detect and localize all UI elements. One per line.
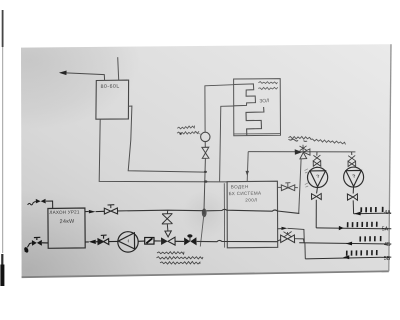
svg-text:3ОЛ: 3ОЛ [259, 98, 269, 104]
wire continuation below supply [200, 217, 203, 247]
valve V9 below pump P1 [312, 188, 322, 200]
wire return main to BH tank [197, 240, 278, 241]
pump P1 [308, 167, 328, 187]
wire pump2 top [351, 152, 353, 155]
pump P4 (small circ pump) [201, 132, 210, 141]
svg-text:200Л: 200Л [245, 198, 257, 203]
wire boiler return stub [85, 241, 89, 243]
radiator line 3 [299, 243, 391, 244]
filter slash [146, 238, 152, 243]
radiator line 1 [354, 212, 392, 215]
wire pump1 down [315, 200, 317, 228]
blob bottom-left [23, 246, 29, 253]
wire pump1 top [316, 152, 318, 156]
wire pump2 down [352, 200, 354, 213]
svg-text:БХ СИСТЕМА: БХ СИСТЕМА [229, 191, 263, 197]
valve V10 with X handle [348, 155, 356, 166]
wire tank right to riser [128, 106, 205, 172]
heat exchanger box HX1 [234, 79, 281, 136]
wire valve down to supply junction [204, 158, 206, 214]
pump P3 impeller triangle [118, 233, 134, 249]
note scribble above pipe C part 2 [311, 139, 346, 144]
wire HX lower to line B [220, 106, 234, 181]
pump P2 impeller triangle [346, 170, 362, 186]
note scribble dark spots [289, 139, 308, 141]
svg-text:24кW: 24кW [59, 219, 75, 226]
tiny marks near riser [305, 169, 309, 187]
note callout to pump [195, 131, 202, 134]
pen dot on paper [25, 250, 27, 252]
wire valve to pump [109, 240, 118, 242]
valve V1 top-left [36, 199, 41, 204]
arrowhead right line2 [339, 226, 344, 230]
paper sheet [21, 44, 391, 277]
radiator ticks line1 [361, 207, 383, 213]
mixing valve V15 with X handle [278, 232, 295, 243]
tank T2 (voden BH sistema 200L) [227, 181, 278, 248]
arrowhead right (supply out) [89, 210, 96, 214]
radiator ticks line2 [348, 222, 377, 228]
HX label scribble line 2 [258, 87, 278, 89]
radiator ticks line4 [347, 250, 377, 256]
wire pump to valve [204, 142, 206, 148]
wire to valve [96, 241, 98, 243]
wire blob to valve [27, 243, 32, 248]
branch from supply junction [166, 210, 168, 213]
valve V8 with X handle [313, 155, 321, 167]
arrowhead left line3 [346, 242, 352, 246]
pump P3 mark [127, 240, 130, 243]
svg-text:ЛАХОН УР21: ЛАХОН УР21 [49, 209, 80, 215]
valve V7 on BH tank right [278, 183, 298, 191]
valve V4 return with T handle [98, 235, 109, 244]
svg-text:4А: 4А [384, 210, 391, 216]
valve V5 (hourglass) below small pump [202, 147, 209, 158]
arrowhead down on feed [246, 171, 250, 176]
wire tank top-left with arrow [61, 73, 105, 81]
svg-text:5А: 5А [382, 227, 389, 233]
wire line2-left from tank [278, 228, 282, 230]
junction node line A [204, 171, 207, 173]
radiator line 4 [305, 257, 391, 259]
arrowhead right on line2-left [281, 227, 287, 230]
valve V13 hourglass with X [162, 214, 173, 224]
radiator ticks line3 [360, 236, 381, 242]
wire valve to boiler left [42, 242, 48, 244]
paper right edge shadow [389, 44, 391, 271]
3-way valve V6 [295, 145, 310, 159]
wire tank top vent [118, 57, 119, 80]
wire double line left of tank T2 [223, 183, 225, 247]
open arrow down [165, 231, 171, 237]
note scribble line 2 [177, 131, 199, 134]
smudge near center junction [182, 190, 230, 238]
wire supply main [118, 209, 300, 213]
wire valve to boiler top [46, 201, 53, 208]
wire filter to 3way [154, 240, 161, 242]
HX lower coil [246, 107, 264, 136]
wire feed into tank top [247, 152, 248, 182]
note line 2 [157, 257, 204, 260]
wire supply riser [299, 159, 301, 214]
svg-text:ВОДЕН: ВОДЕН [231, 184, 249, 189]
filter F1 [145, 238, 154, 245]
wire boiler supply stub [85, 211, 89, 213]
svg-text:80-60L: 80-60L [101, 84, 120, 90]
junction node line B [204, 180, 207, 182]
paper corner shading [0, 0, 148, 320]
binder edge line (left margin) [2, 10, 4, 253]
junction blob [202, 208, 207, 217]
arrowhead left (into boiler) [89, 240, 96, 244]
wire to arrow [166, 224, 169, 231]
wire valve to line3 corner [295, 239, 304, 243]
note scribble above pipe C [289, 137, 312, 140]
pump P1 mark [316, 175, 318, 178]
note line 3 [160, 262, 200, 265]
note line 1 [157, 252, 184, 255]
wire HX upper to pump [205, 85, 234, 133]
pump P2 [344, 167, 364, 187]
pump P3 (boiler pump) [118, 232, 138, 252]
HX upper coil [234, 84, 256, 106]
wire pump to filter [138, 240, 144, 242]
wire 3way to dark valve [175, 240, 184, 242]
HX box bottom double edge [234, 133, 280, 135]
pump P2 mark [352, 175, 354, 178]
wire tank bottom to BH box [99, 119, 227, 182]
arrowhead left line4 [343, 255, 349, 259]
valve V3 supply with T handle [104, 205, 117, 214]
arrowhead left [59, 71, 67, 76]
wire boiler top-left squiggle [28, 201, 36, 205]
3-way mixing valve V12 [161, 237, 175, 245]
black mark bottom-left edge [1, 254, 3, 266]
valve V14 dark with knob [184, 234, 197, 245]
radiator line 2 [316, 227, 391, 230]
tank T1 80-60L [96, 80, 129, 119]
wire line2-left to corner down [287, 228, 304, 243]
valve V11 below pump P2 [347, 187, 357, 200]
HX label scribble line 1 [258, 82, 277, 84]
wire line3-line4 connector [304, 243, 306, 259]
valve V2 bottom-left with T handle [32, 237, 42, 246]
pump P1 impeller triangle [310, 171, 326, 187]
wire to valve [96, 210, 105, 212]
svg-text:4Б: 4Б [384, 242, 391, 248]
note scribble line 1 [177, 126, 194, 129]
paper bottom edge shadow [22, 271, 389, 277]
boiler B1 [48, 208, 85, 248]
arrowhead left line1 [354, 212, 360, 216]
svg-text:5Б: 5Б [384, 256, 391, 262]
wire pipe C horizontal [248, 151, 355, 153]
note ink dot [180, 133, 182, 135]
